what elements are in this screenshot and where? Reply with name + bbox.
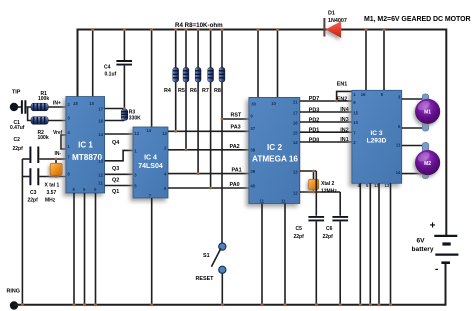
wire: PA1 row IC4 pin4 to IC2 pin39 [168, 173, 249, 175]
svg-text:39: 39 [250, 169, 255, 174]
resistor R3 330K [121, 109, 141, 121]
wire: R1 to IC1 pin2 [48, 106, 66, 108]
wire: IC1 pin13 Q3 row jog up to IC4 pin1 [105, 150, 133, 160]
svg-text:IC 3: IC 3 [370, 130, 382, 137]
svg-text:PD1: PD1 [309, 128, 320, 134]
wire: IC4 ground to bottom bus [151, 198, 153, 305]
wire: IC2 ground pins to bottom bus [262, 204, 285, 305]
svg-text:PD3: PD3 [309, 107, 320, 113]
svg-text:IC 2: IC 2 [267, 143, 282, 152]
wire: IC3 pin3 to motor M1 top [402, 98, 423, 100]
svg-text:12: 12 [293, 190, 298, 195]
IC U2: IC 2 ATMEGA 16 [249, 97, 300, 203]
svg-text:Q3: Q3 [112, 166, 119, 172]
resistor R6 10K [190, 68, 201, 95]
svg-text:12: 12 [162, 131, 167, 136]
svg-text:330K: 330K [129, 115, 141, 121]
wire: PA3 row IC4 pin12 to IC2 pin37 [168, 130, 249, 132]
junction dots on ground bus [21, 303, 392, 306]
wire: C1 to R1 and node branch down to R2 row [26, 107, 31, 121]
svg-text:10: 10 [353, 120, 358, 125]
motor M2 [415, 143, 440, 179]
svg-text:PD7: PD7 [309, 96, 320, 102]
svg-text:M1: M1 [424, 110, 431, 116]
svg-text:14: 14 [396, 170, 401, 175]
wire: IC1 pin17 row to R3 top [105, 108, 125, 110]
svg-text:PA1: PA1 [232, 168, 242, 174]
svg-text:C6: C6 [326, 226, 333, 232]
wire: R4 pull-up vertical [175, 30, 177, 132]
svg-text:15: 15 [353, 111, 358, 116]
wire: ground vertical on far left down to bottom bus [21, 159, 23, 305]
wire: IC3 pin11 to motor M2 top [402, 145, 423, 147]
svg-text:PA0: PA0 [230, 182, 240, 188]
wire: IC1 pin14 Q4 row to IC4 pin13 [105, 133, 133, 135]
svg-text:IC 1: IC 1 [78, 141, 93, 150]
svg-text:16: 16 [361, 92, 366, 97]
svg-text:37: 37 [250, 126, 255, 131]
svg-text:17: 17 [293, 110, 298, 115]
svg-text:IN3: IN3 [340, 117, 348, 123]
svg-text:100k: 100k [38, 96, 49, 102]
svg-text:RESET: RESET [196, 276, 215, 282]
wire: IC2 VCC risers [258, 30, 278, 98]
svg-text:22pf: 22pf [28, 198, 39, 204]
wire: PA0 row IC4 pin6 to IC2 pin40 [168, 187, 249, 189]
svg-text:13: 13 [293, 169, 298, 174]
svg-text:PA2: PA2 [230, 144, 240, 150]
svg-text:M1, M2=6V GEARED DC MOTOR: M1, M2=6V GEARED DC MOTOR [364, 16, 471, 23]
IC U4: IC 4 74LS04 hex inverter [133, 127, 168, 198]
resistor R5 10K [178, 68, 189, 95]
svg-text:L293D: L293D [367, 138, 387, 145]
svg-text:+: + [430, 221, 436, 232]
svg-text:12: 12 [98, 172, 103, 177]
wire: RST row from R8/S1 vertical to IC2 pin9 [222, 118, 249, 120]
capacitor C2 22pf [13, 137, 67, 163]
svg-text:Q2: Q2 [112, 178, 119, 184]
junction dots on rows [55, 100, 338, 194]
capacitor C1 0.47uf [10, 100, 25, 131]
svg-text:R5: R5 [178, 88, 185, 94]
svg-text:EN2: EN2 [337, 96, 348, 102]
svg-text:R7: R7 [202, 88, 209, 94]
wire: R7 pull-up vertical [210, 30, 212, 189]
svg-text:IN1: IN1 [340, 137, 348, 143]
svg-text:17: 17 [98, 106, 103, 111]
svg-text:30: 30 [251, 102, 256, 107]
junction dots on VCC bus [91, 28, 385, 31]
svg-text:Q1: Q1 [112, 189, 119, 195]
battery 6V [412, 221, 459, 275]
svg-text:C2: C2 [14, 137, 21, 143]
resistor R1 100k [31, 91, 49, 111]
wire: IC3 ground pins to bottom bus [360, 183, 390, 304]
svg-text:14: 14 [146, 128, 151, 133]
motor M1 [415, 94, 440, 131]
wire: IC1 bottom pins 6 5 9 to ground bus [74, 193, 96, 305]
svg-text:10: 10 [271, 101, 276, 106]
svg-text:EN1: EN1 [337, 81, 348, 87]
svg-text:D1: D1 [328, 11, 335, 17]
resistor R4 10K [164, 68, 179, 95]
svg-text:18: 18 [73, 101, 78, 106]
svg-text:1N4007: 1N4007 [328, 18, 347, 24]
svg-text:M2: M2 [424, 161, 431, 167]
node RING terminal [7, 289, 20, 310]
wire: IC3 pin14 to motor M2 bottom [402, 173, 423, 175]
svg-text:C3: C3 [30, 190, 37, 196]
svg-text:14: 14 [98, 132, 103, 137]
svg-text:16: 16 [293, 120, 298, 125]
svg-text:Vref: Vref [53, 130, 63, 136]
svg-text:38: 38 [250, 147, 255, 152]
wire: R6 pull-up vertical [197, 30, 199, 174]
wire: IC3 VCC risers pins 16 and 8 [366, 30, 384, 91]
svg-text:IN2: IN2 [340, 127, 348, 133]
wire: IC1 pin12 Q2 row to IC4 pin3 [105, 173, 133, 175]
svg-text:12MHz: 12MHz [321, 188, 337, 194]
svg-text:Q4: Q4 [112, 140, 119, 146]
wire: R5 pull-up vertical [185, 30, 187, 150]
wire: PA2 row IC4 pin2 to IC2 pin38 [168, 149, 249, 151]
capacitor C3 22pf [22, 168, 66, 203]
node TIP terminal [10, 90, 21, 112]
wire: PD0 row to IC3 IN1 [300, 141, 352, 143]
svg-text:0.1uf: 0.1uf [105, 72, 117, 78]
svg-text:Xtal 2: Xtal 2 [321, 181, 335, 187]
svg-text:RING: RING [7, 289, 20, 295]
capacitor C4 0.1uf [104, 61, 132, 78]
svg-text:S1: S1 [203, 253, 210, 259]
wire: top VCC bus with right drop to battery [78, 30, 447, 236]
wire: PD1 row to IC3 IN2 [300, 131, 352, 133]
op-amp/IC U1: IC 1 MT8870 DTMF decoder [66, 97, 105, 194]
wire: IC1 pin11 Q1 row to IC4 pin5 [105, 185, 133, 187]
resistor R7 10K [202, 68, 214, 95]
svg-text:11: 11 [281, 198, 286, 203]
wire: IC3 pin6 to motor M1 bottom [402, 127, 423, 129]
crystal Xtal 2 12MHz [300, 171, 340, 194]
resistor R8 10K [214, 68, 225, 95]
svg-text:TIP: TIP [12, 90, 21, 96]
svg-text:battery: battery [412, 246, 434, 253]
svg-text:IN-: IN- [55, 151, 62, 157]
wire: C4 branch from bus down to IC1 pin17 row [123, 30, 125, 109]
svg-text:C5: C5 [296, 226, 303, 232]
svg-text:16: 16 [98, 118, 103, 123]
wire: IC1 pin16 row to R3 bottom [105, 120, 125, 122]
svg-text:X tal 1: X tal 1 [45, 182, 60, 188]
crystal X tal 1 3.57 MHz [45, 159, 63, 204]
svg-text:IN+: IN+ [53, 100, 61, 106]
svg-text:IC 4: IC 4 [144, 155, 157, 162]
svg-text:21: 21 [293, 99, 298, 104]
svg-text:100k: 100k [38, 135, 49, 141]
svg-text:13: 13 [385, 183, 390, 188]
svg-text:22pf: 22pf [323, 234, 334, 240]
svg-text:13: 13 [98, 159, 103, 164]
wire: S1 to ground bus [221, 273, 223, 304]
svg-text:C4: C4 [104, 65, 111, 71]
svg-text:PA3: PA3 [231, 125, 241, 131]
svg-text:11: 11 [260, 198, 265, 203]
svg-text:MHz: MHz [45, 198, 56, 204]
capacitor C6 22pf [323, 192, 349, 305]
wire: IC4 VCC riser [151, 30, 153, 128]
wire: TIP to C1 [18, 106, 22, 108]
svg-text:3.57: 3.57 [47, 190, 57, 196]
svg-text:40: 40 [250, 183, 255, 188]
svg-text:R4 R8=10K-ohm: R4 R8=10K-ohm [175, 22, 223, 29]
wire: PD7 row to IC3 EN2 with EN1 branch [300, 91, 352, 101]
svg-text:PD0: PD0 [309, 137, 320, 143]
wire: PD3 row to IC3 IN4 [300, 111, 352, 113]
svg-text:R6: R6 [190, 88, 197, 94]
svg-text:15: 15 [293, 130, 298, 135]
svg-text:74LS04: 74LS04 [138, 163, 163, 170]
IC U3: IC 3 L293D motor driver [352, 90, 402, 188]
svg-text:10: 10 [89, 101, 94, 106]
svg-text:R8: R8 [214, 88, 221, 94]
svg-text:6V: 6V [417, 238, 426, 245]
svg-text:PD2: PD2 [309, 117, 320, 123]
wire: Vref bracket pin4 to pin1 [61, 135, 66, 149]
svg-text:ATMEGA 16: ATMEGA 16 [252, 154, 298, 163]
svg-text:22pf: 22pf [294, 234, 305, 240]
svg-text:13: 13 [134, 131, 139, 136]
svg-text:14: 14 [293, 140, 298, 145]
svg-text:11: 11 [98, 180, 103, 185]
svg-text:RST: RST [231, 112, 242, 118]
svg-text:IN4: IN4 [340, 107, 348, 113]
wire: bottom ground bus [14, 263, 446, 305]
capacitor C5 22pf [294, 171, 325, 305]
svg-text:R4: R4 [164, 88, 171, 94]
svg-text:0.47uf: 0.47uf [10, 125, 25, 131]
wire: R2 to IC1 pin3 [48, 120, 66, 122]
svg-text:-: - [435, 264, 438, 275]
wire: IC1 pin10 riser [92, 30, 94, 97]
svg-text:22pf: 22pf [13, 146, 24, 152]
diode D1 1N4007 [323, 11, 346, 38]
wire: PD2 row to IC3 IN3 [300, 121, 352, 123]
wire: R8 pull-up vertical down to switch S1 [221, 30, 223, 244]
switch S1 RESET [196, 243, 226, 282]
resistor R2 100k [31, 117, 49, 142]
svg-text:11: 11 [396, 142, 401, 147]
